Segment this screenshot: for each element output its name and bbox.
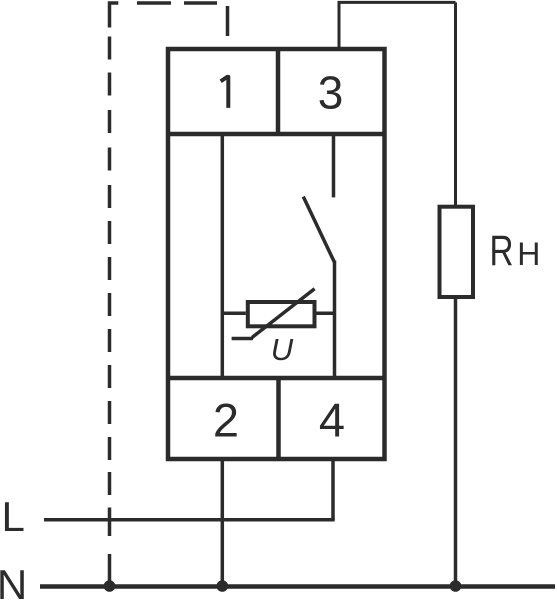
svg-text:2: 2 — [213, 394, 239, 447]
wire terminal 3 to top — [338, 2, 341, 49]
junction dot load wire to N — [450, 580, 462, 592]
divider terminals 2/4 — [276, 378, 281, 459]
varistor RU diagonal — [252, 289, 315, 338]
junction dot terminal 2 wire to N — [217, 580, 229, 592]
wire top horizontal to load — [338, 1, 456, 4]
wire terminal 2 to N — [221, 459, 225, 586]
wire switch fixed contact from terminal 3 — [332, 134, 336, 197]
load resistor RH body — [440, 207, 474, 297]
wire dashed enclosure right drop — [226, 6, 230, 36]
device outer box — [168, 49, 385, 459]
device bottom terminal row line — [168, 376, 385, 381]
wire L line — [44, 518, 335, 522]
wire load upper lead — [454, 2, 457, 206]
svg-text:3: 3 — [318, 67, 344, 119]
svg-text:U: U — [271, 332, 294, 367]
junction dot dashed line to N — [104, 580, 116, 592]
device top terminal row line — [168, 132, 385, 137]
wire load lower lead to N — [454, 299, 458, 586]
varistor RU diagonal tail — [232, 337, 253, 341]
varistor RU body — [248, 302, 315, 326]
divider terminals 1/3 — [276, 49, 281, 134]
wire dashed enclosure top dash 2 — [137, 1, 171, 5]
svg-text:L: L — [2, 493, 25, 540]
svg-text:R: R — [490, 227, 514, 275]
svg-text:H: H — [517, 236, 540, 272]
wire dashed enclosure top dash 3 — [184, 1, 217, 5]
label terminal 1 — [221, 77, 229, 108]
svg-text:N: N — [0, 561, 27, 600]
wire varistor right lead — [317, 311, 335, 315]
wire terminal 4 to L — [331, 459, 335, 520]
wire inner left (terminal 1 to terminal 2) — [221, 134, 225, 378]
svg-text:4: 4 — [319, 394, 345, 447]
wire N line — [40, 584, 555, 589]
wire inner right (switch to terminal 4) — [333, 261, 337, 379]
switch S1 arm — [303, 197, 334, 263]
wire dashed enclosure corner top-left — [110, 3, 119, 28]
wire varistor left lead — [222, 311, 246, 315]
wire dashed enclosure left vertical — [108, 37, 112, 581]
